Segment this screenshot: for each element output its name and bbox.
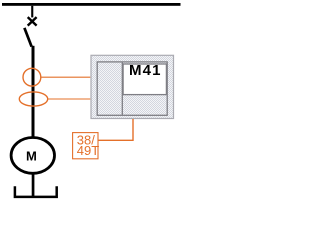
svg-text:49T: 49T [77, 143, 99, 158]
disconnect switch blade [24, 28, 31, 47]
motor M1 circle [11, 138, 54, 174]
wire motor to ground [32, 173, 35, 197]
CT2 current transformer [19, 92, 47, 106]
circuit breaker X [28, 17, 37, 26]
wire breaker stub [31, 6, 33, 18]
ground bracket [15, 186, 57, 197]
annotation box 38/49T [73, 133, 98, 159]
wire main vertical [32, 46, 35, 138]
CT1 current transformer [23, 68, 41, 86]
relay module divider [121, 62, 123, 115]
relay device outer frame [91, 55, 174, 118]
svg-text:M: M [26, 148, 37, 163]
wire CT2 to relay [48, 98, 91, 100]
busbar [2, 3, 181, 6]
wire relay to annotation (L-shape) [99, 119, 134, 140]
svg-text:M41: M41 [129, 62, 161, 79]
wire CT1 to relay [41, 76, 91, 78]
relay M41 display window [123, 64, 166, 95]
relay device inner box [97, 62, 167, 115]
